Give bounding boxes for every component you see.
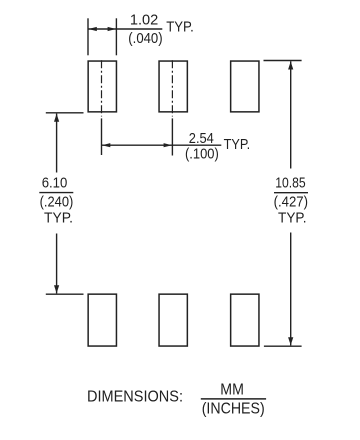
label TYP. (1.02) bbox=[166, 19, 194, 36]
pad P1 (top-left) bbox=[88, 61, 116, 112]
dimension 6.10 top extension line bbox=[46, 112, 84, 114]
label 10.85 bbox=[275, 175, 305, 192]
dimension 1.02 arrow line bbox=[88, 27, 116, 31]
dimension 6.10 line lower segment with down arrow bbox=[54, 234, 59, 294]
label (.100) bbox=[185, 145, 219, 162]
svg-text:(.427): (.427) bbox=[274, 194, 308, 211]
svg-text:6.10: 6.10 bbox=[42, 175, 68, 192]
label 1.02 bbox=[130, 12, 158, 29]
svg-text:MM: MM bbox=[220, 381, 244, 398]
dimension 10.85 top extension line bbox=[264, 60, 302, 62]
pad P6 (bottom-right) bbox=[231, 294, 259, 346]
pad P4 (bottom-left) bbox=[88, 294, 116, 346]
dimension 1.02 extension line right bbox=[115, 18, 117, 55]
svg-text:(.240): (.240) bbox=[40, 194, 74, 211]
label TYP. (6.10) bbox=[44, 210, 73, 227]
dimension 2.54 fraction bar bbox=[172, 144, 221, 146]
pad P3 (top-right) bbox=[231, 61, 259, 112]
label (INCHES) bbox=[202, 401, 265, 418]
svg-text:TYP.: TYP. bbox=[44, 210, 73, 227]
dimension 10.85 line upper segment with up arrow bbox=[288, 61, 293, 168]
dimension 10.85 line lower segment with down arrow bbox=[288, 233, 293, 346]
svg-text:TYP.: TYP. bbox=[224, 136, 251, 153]
svg-text:TYP.: TYP. bbox=[278, 210, 307, 227]
svg-text:1.02: 1.02 bbox=[130, 12, 158, 29]
pad P2 (top-middle) bbox=[159, 61, 187, 112]
label MM bbox=[220, 381, 244, 398]
dimension 6.10 line upper segment with up arrow bbox=[54, 114, 59, 173]
centerline pad P2 bbox=[171, 60, 173, 116]
dimension 10.85 bottom extension line bbox=[264, 345, 302, 347]
label 6.10 bbox=[42, 175, 68, 192]
label TYP. (2.54) bbox=[224, 136, 251, 153]
svg-text:DIMENSIONS:: DIMENSIONS: bbox=[87, 389, 183, 406]
label DIMENSIONS: bbox=[87, 389, 183, 406]
pad P5 (bottom-middle) bbox=[159, 294, 187, 346]
svg-text:(.040): (.040) bbox=[128, 30, 162, 47]
svg-text:(.100): (.100) bbox=[185, 145, 219, 162]
fraction bar 10.85 bbox=[274, 192, 308, 194]
dimension 2.54 arrow line bbox=[102, 143, 173, 147]
label TYP. (10.85) bbox=[278, 210, 307, 227]
dimension 6.10 bottom extension line bbox=[46, 293, 84, 295]
label 2.54 bbox=[189, 130, 214, 147]
svg-text:TYP.: TYP. bbox=[166, 19, 194, 36]
dimension 1.02 extension line left bbox=[87, 18, 89, 55]
svg-text:10.85: 10.85 bbox=[275, 175, 305, 192]
dimension 2.54 extension line left (centerline P1 extended) bbox=[101, 118, 103, 155]
centerline pad P1 bbox=[101, 60, 103, 116]
label (.427) bbox=[274, 194, 308, 211]
dimension 2.54 extension line right (centerline P2 extended) bbox=[171, 118, 173, 155]
fraction bar 6.10 bbox=[39, 192, 73, 194]
svg-text:(INCHES): (INCHES) bbox=[202, 401, 265, 418]
fraction bar MM/(INCHES) bbox=[201, 398, 266, 400]
dimension 1.02 leader / fraction bar bbox=[116, 28, 162, 30]
label (.040) bbox=[128, 30, 162, 47]
label (.240) bbox=[40, 194, 74, 211]
